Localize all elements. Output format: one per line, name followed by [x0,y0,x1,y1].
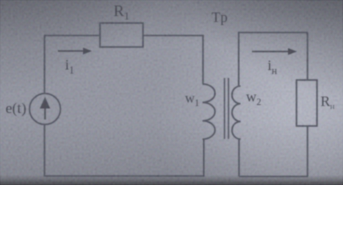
current arrow i1 [58,48,92,55]
wire: Rn to right loop bottom [307,126,309,177]
source e(t) circle [30,94,61,125]
wire: right loop top [238,32,308,34]
wire: right loop bottom [239,176,308,178]
wire: left loop bottom [45,175,205,177]
winding w2 [232,86,241,139]
resistor R1 [100,23,143,47]
wire: left vertical top segment [44,36,46,95]
wire: top wire down to Rn [307,33,309,81]
wire: primary top lead [202,35,204,84]
wire: primary bottom lead [203,139,205,176]
wire: left loop top, corner to R1 [44,35,100,37]
resistor Rn [297,80,318,126]
wire: secondary top lead [238,33,240,87]
source e(t) arrow [40,97,50,120]
wire: secondary bottom lead [238,139,240,177]
current arrow in [252,48,297,55]
transformer core [225,78,229,139]
wire: left vertical bottom segment [44,124,46,177]
wire: R1 to transformer primary [143,35,204,37]
winding w1 [203,84,216,139]
